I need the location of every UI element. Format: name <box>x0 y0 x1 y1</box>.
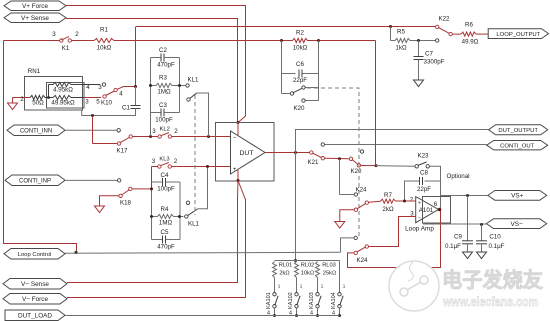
label C9 value <box>445 243 461 250</box>
svg-text:R3: R3 <box>159 75 167 82</box>
svg-text:3: 3 <box>152 128 156 135</box>
svg-text:R6: R6 <box>465 22 473 29</box>
node K17 tap <box>91 114 94 117</box>
svg-text:DUT_OUTPUT: DUT_OUTPUT <box>498 128 538 134</box>
wire DUT V- inside box <box>237 170 239 181</box>
label RN1 pin 4 <box>86 84 90 91</box>
svg-text:4.95kΩ: 4.95kΩ <box>53 87 73 94</box>
capacitor C7 <box>414 41 424 81</box>
node DUT V+ junction <box>237 121 240 124</box>
node R2 right <box>317 39 320 42</box>
ground C10 <box>477 252 487 259</box>
svg-text:+: + <box>418 201 421 207</box>
label R5 <box>397 29 405 36</box>
svg-text:K20: K20 <box>293 105 305 112</box>
wire VS+ row <box>441 195 488 197</box>
svg-text:5: 5 <box>96 99 100 106</box>
ground C9 <box>463 252 473 259</box>
svg-text:1: 1 <box>300 284 303 289</box>
svg-text:RL03: RL03 <box>322 263 336 269</box>
svg-text:K17: K17 <box>116 148 128 155</box>
svg-text:C9: C9 <box>454 234 462 241</box>
label C10 value <box>489 243 505 250</box>
flag V+ Sense <box>4 13 66 23</box>
relay switch KA104 <box>331 284 346 318</box>
label R1 <box>100 27 108 34</box>
node R4 left <box>150 215 153 218</box>
wire V+ Force net: right then down x=245.5 <box>66 6 246 123</box>
wire lower network left rail x=151.5 <box>151 167 153 240</box>
svg-text:4: 4 <box>119 91 123 98</box>
wire left rail from K1 row down to Loop Control <box>4 41 77 253</box>
svg-text:−: − <box>418 216 421 222</box>
switch K18 <box>119 187 152 197</box>
svg-text:10kΩ: 10kΩ <box>97 45 112 52</box>
svg-text:+: + <box>233 167 237 173</box>
svg-text:R4: R4 <box>161 206 169 213</box>
svg-text:C1: C1 <box>122 105 130 112</box>
label KL2 <box>160 127 170 133</box>
svg-text:3: 3 <box>52 31 56 38</box>
label DUT plus pin <box>233 167 237 173</box>
svg-text:V− Force: V− Force <box>22 296 49 303</box>
label RL02 value <box>301 271 314 277</box>
svg-text:K10: K10 <box>101 100 113 107</box>
label R3 value <box>157 89 171 96</box>
node C7 tap <box>417 39 420 42</box>
svg-text:R2: R2 <box>296 30 304 37</box>
svg-text:KL1: KL1 <box>187 77 199 84</box>
wire C1 upper stem <box>135 87 137 106</box>
label KL3 <box>159 157 169 163</box>
label KL2 pin 2 <box>174 128 178 135</box>
label A101 pin 2 <box>410 196 414 203</box>
capacitor C8 <box>405 177 441 200</box>
label C8 value <box>417 186 431 193</box>
capacitor C6 <box>299 70 302 78</box>
svg-text:R5: R5 <box>397 29 405 36</box>
label K18 <box>120 200 132 207</box>
wire R1 row continues to R2 node <box>246 40 282 42</box>
label RL03 value <box>323 271 336 277</box>
svg-text:3: 3 <box>85 99 89 106</box>
wire pin3 input <box>369 217 416 247</box>
label R6 <box>465 22 473 29</box>
svg-text:R7: R7 <box>384 192 392 199</box>
resistor R2 <box>293 38 308 42</box>
switch K17 <box>93 116 133 146</box>
svg-text:KA102: KA102 <box>288 292 294 309</box>
svg-text:C5: C5 <box>161 229 169 236</box>
resistor network RN1 outer box <box>25 77 83 111</box>
svg-text:0.1μF: 0.1μF <box>489 243 505 250</box>
svg-text:100pF: 100pF <box>155 117 173 124</box>
label KL2 pin 3 <box>152 128 156 135</box>
svg-text:KA103: KA103 <box>309 292 315 309</box>
dashed link KL1a-KL1b <box>194 95 196 215</box>
wire K24 upper to ground <box>340 210 354 222</box>
label KL1 lower <box>188 221 200 228</box>
svg-text:K20: K20 <box>350 168 362 175</box>
wire KA104 feed <box>339 261 341 293</box>
wire upper network left rail x=150 <box>150 58 152 137</box>
wire top loop-output net y=26.5 from x=136 to K22 <box>136 26 437 28</box>
svg-text:KA104: KA104 <box>331 292 337 309</box>
label C5 <box>161 229 169 236</box>
svg-text:2: 2 <box>174 158 178 165</box>
switch K20 mid <box>349 157 360 167</box>
svg-text:1: 1 <box>278 284 281 289</box>
wire lower network right rail x=180 <box>179 182 181 240</box>
wire VS- row <box>423 223 487 225</box>
wire K21 to K20 <box>325 157 350 160</box>
label C1 <box>122 105 130 112</box>
wire CONTI_INN to contact <box>65 129 117 131</box>
label C6 value <box>293 77 307 84</box>
svg-text:CONTI_INN: CONTI_INN <box>20 128 52 134</box>
wire R2 drop <box>375 41 377 166</box>
label K1 pin 3 <box>52 31 56 38</box>
label K20 top <box>293 105 305 112</box>
wire V+ Sense net: right then down x=237.5 <box>66 19 238 123</box>
wire DUT output load drop <box>295 153 297 261</box>
resistor RN1b 50ohm <box>13 95 54 99</box>
wire CONTI_OUT line <box>325 144 487 146</box>
relay switch KA101 <box>266 284 281 318</box>
open contact K18 fixed <box>118 179 121 182</box>
label KL1 upper <box>187 77 199 84</box>
capacitor C10 <box>476 225 487 253</box>
node RN1 mid <box>47 96 50 99</box>
node A101 output <box>438 208 442 212</box>
flag DUT_LOAD <box>5 310 65 321</box>
node R3 right <box>178 84 181 87</box>
svg-text:RL01: RL01 <box>279 263 293 269</box>
label A101 pin 3 <box>410 211 414 218</box>
label 50ohm <box>32 100 44 107</box>
node R2 left <box>280 39 283 42</box>
flag CONTI_INP <box>5 175 65 186</box>
op-amp A101 triangle <box>416 197 439 223</box>
svg-text:DUT_LOAD: DUT_LOAD <box>18 312 52 319</box>
switch K21 <box>310 151 325 160</box>
label RL02 <box>301 263 315 269</box>
resistor RN1c 49.95k <box>53 95 84 99</box>
ground RN1 left <box>8 98 18 110</box>
resistor R1 <box>94 38 246 42</box>
svg-text:Optional: Optional <box>447 173 470 180</box>
wire V- sense rail <box>67 181 238 283</box>
node C1 top junction <box>134 85 137 88</box>
ground K24 upper <box>335 222 345 229</box>
label C7 <box>425 51 433 58</box>
label DUT <box>240 150 254 157</box>
svg-text:KL2: KL2 <box>160 127 170 133</box>
label C9 <box>454 234 462 241</box>
node C8 tap on pin2 <box>403 200 406 203</box>
open contact K21 up <box>321 143 324 146</box>
open contact K22 lower <box>436 39 439 42</box>
node R4 right <box>178 215 181 218</box>
svg-text:KL3: KL3 <box>159 157 169 163</box>
label C10 <box>489 234 501 241</box>
resistor R5 <box>395 38 435 42</box>
svg-text:V+ Force: V+ Force <box>22 3 49 10</box>
switch KL2 <box>158 133 172 139</box>
label C2 value <box>157 62 175 69</box>
resistor R3 <box>151 83 186 87</box>
flag CONTI_INN <box>7 125 65 136</box>
switch KL1 upper <box>186 84 209 137</box>
label C8 <box>420 170 428 177</box>
resistor network RN1 inner box <box>47 83 85 109</box>
wire load bank top rail <box>275 260 340 262</box>
label KL3 pin 3 <box>152 158 156 165</box>
label KL3 pin 2 <box>174 158 178 165</box>
wire C6 right rail <box>302 41 319 74</box>
svg-text:K24: K24 <box>355 187 367 194</box>
svg-text:K22: K22 <box>438 16 450 23</box>
wire RN1 inner left rail <box>48 85 50 98</box>
capacitor C4 <box>152 178 181 186</box>
label K10 <box>101 100 113 107</box>
op-amp DUT triangle <box>231 131 266 174</box>
open contact K17 fixed <box>117 129 120 132</box>
wire x=135.5 red riser from top line <box>135 27 137 87</box>
flag V- Force <box>3 294 67 305</box>
dashed link K20-K24 <box>307 88 359 237</box>
label C2 <box>159 47 167 54</box>
wire feedback loop bottom <box>348 211 441 268</box>
label R1 value 10k <box>97 45 112 52</box>
node DUT output sense tap <box>294 151 297 154</box>
svg-text:VS+: VS+ <box>511 193 524 200</box>
label R6 value <box>462 39 479 46</box>
svg-text:22pF: 22pF <box>417 186 431 193</box>
capacitor C9 <box>462 196 473 253</box>
resistor RL02 <box>295 262 299 293</box>
flag Loop Control <box>4 249 65 260</box>
wire V- force rail <box>67 181 246 298</box>
svg-text:C3: C3 <box>159 102 167 109</box>
label R7 value <box>382 206 394 213</box>
watermark elecfans logo and text <box>389 261 543 311</box>
label K22 <box>438 16 450 23</box>
switch K20 top <box>282 74 319 103</box>
svg-text:www.elecfans.com: www.elecfans.com <box>442 294 538 309</box>
label RL03 <box>322 263 336 269</box>
label RL01 <box>279 263 293 269</box>
wire DUT output <box>265 152 310 154</box>
svg-text:KA101: KA101 <box>266 292 272 309</box>
label A101 pin 6 <box>434 201 438 208</box>
svg-text:K21: K21 <box>307 159 319 166</box>
switch K23 <box>376 162 441 177</box>
node Loop Control tap <box>74 251 77 254</box>
switch K1 <box>60 37 94 43</box>
node R3 left <box>149 84 152 87</box>
flag V+ Force <box>4 1 66 11</box>
relay switch KA102 <box>288 284 303 318</box>
svg-text:4: 4 <box>86 84 90 91</box>
switch K22 <box>436 25 453 36</box>
resistor RN1a 4.95k <box>49 82 85 86</box>
node K23 junction <box>375 164 378 167</box>
svg-text:2kΩ: 2kΩ <box>279 271 289 277</box>
svg-text:470pF: 470pF <box>157 244 175 251</box>
svg-text:Loop Amp: Loop Amp <box>405 226 434 233</box>
svg-text:CONTI_OUT: CONTI_OUT <box>500 143 534 149</box>
node plus input tap x=207.5 <box>206 165 209 168</box>
node KL2 left rail junction <box>149 135 152 138</box>
switch K10 <box>103 87 136 99</box>
flag VS- <box>487 219 547 229</box>
label C5 value <box>157 244 175 251</box>
svg-text:1: 1 <box>321 284 324 289</box>
label RN1 pin 2 <box>20 96 24 103</box>
wire R5 drop <box>391 27 396 41</box>
label RN1 pin 5 <box>96 99 100 106</box>
svg-text:2: 2 <box>20 96 24 103</box>
label K1 <box>62 45 70 52</box>
label C3 <box>159 102 167 109</box>
label R2 <box>296 30 304 37</box>
label 49.95k <box>51 100 75 107</box>
capacitor C5 <box>152 236 181 244</box>
wire upper network right rail x=179 <box>179 58 181 113</box>
svg-text:K23: K23 <box>417 153 429 160</box>
label R2 value <box>293 45 308 52</box>
label RN1 pin 3b <box>85 99 89 106</box>
ground K18 <box>95 206 105 213</box>
svg-text:CONTI_INP: CONTI_INP <box>19 178 51 184</box>
wire DUT_OUTPUT sense line <box>296 130 489 153</box>
svg-text:C10: C10 <box>489 234 501 241</box>
label Optional <box>447 173 470 180</box>
wire CONTI_INP to contact <box>65 179 117 181</box>
wire DUT plus input row y=166.5 <box>152 166 231 168</box>
svg-text:1MΩ: 1MΩ <box>157 89 171 96</box>
node minus input tap x=208.5 <box>207 135 210 138</box>
flag VS+ <box>488 191 547 201</box>
svg-text:1: 1 <box>343 284 346 289</box>
wire K1/R1 row y=40.5 <box>4 40 60 42</box>
switch KL1 lower <box>185 168 208 218</box>
svg-text:1MΩ: 1MΩ <box>159 220 173 227</box>
wire K24 upper fixed <box>340 159 358 196</box>
switch KL3 <box>158 163 172 169</box>
switch K24 lower <box>354 245 368 255</box>
label R5 value <box>395 45 407 52</box>
open contact K20 mid up <box>360 150 363 153</box>
node K20 feed tap <box>338 157 341 160</box>
svg-text:2: 2 <box>75 31 79 38</box>
wire K20 to K23 node <box>361 165 377 167</box>
label C6 <box>296 61 304 68</box>
label R3 <box>159 75 167 82</box>
flag V- Sense <box>3 279 67 290</box>
wire RN1 bottom row to K10 <box>84 97 101 99</box>
label DUT minus pin <box>233 135 237 141</box>
flag CONTI_OUT <box>487 141 548 150</box>
wire K24 lower fixed contact <box>341 236 358 252</box>
relay switch KA103 <box>309 284 324 318</box>
wire C1 bottom to RN1 link <box>82 109 136 116</box>
label C4 value <box>157 186 175 193</box>
wire DUT V+ into triangle <box>237 123 239 136</box>
svg-text:RN1: RN1 <box>28 68 41 75</box>
node DUT V- junction <box>237 179 240 182</box>
svg-text:22pF: 22pF <box>293 77 307 84</box>
resistor R7 <box>368 199 395 203</box>
wire C6 left rail <box>282 41 296 74</box>
node load rail tap <box>294 259 297 262</box>
label R4 value <box>159 220 173 227</box>
svg-text:电子发烧友: 电子发烧友 <box>442 268 543 292</box>
svg-text:DUT: DUT <box>240 150 254 157</box>
wire C8 right to output <box>440 181 442 208</box>
svg-text:C8: C8 <box>420 170 428 177</box>
svg-text:100pF: 100pF <box>157 186 175 193</box>
svg-text:3: 3 <box>98 84 102 91</box>
svg-text:V− Sense: V− Sense <box>21 281 49 288</box>
svg-text:50Ω: 50Ω <box>32 100 44 107</box>
svg-text:2: 2 <box>174 128 178 135</box>
svg-text:K1: K1 <box>62 45 70 52</box>
svg-text:2kΩ: 2kΩ <box>382 206 394 213</box>
svg-text:10kΩ: 10kΩ <box>301 271 314 277</box>
svg-text:3300pF: 3300pF <box>424 59 445 66</box>
label 4.95k <box>53 87 73 94</box>
label C4 <box>161 172 169 179</box>
label K24 lower <box>356 257 368 264</box>
label K1 pin 2 <box>75 31 79 38</box>
svg-text:1kΩ: 1kΩ <box>395 45 407 52</box>
svg-text:C2: C2 <box>159 47 167 54</box>
label K24 upper <box>355 187 367 194</box>
svg-text:10kΩ: 10kΩ <box>293 45 308 52</box>
label C7 value <box>424 59 445 66</box>
node C9 tap <box>466 194 469 197</box>
open contact above K10 <box>102 83 105 86</box>
svg-text:C6: C6 <box>296 61 304 68</box>
resistor RL01 <box>273 262 277 293</box>
svg-text:−: − <box>233 135 237 141</box>
resistor R6 <box>453 32 489 36</box>
svg-text:49.95kΩ: 49.95kΩ <box>51 100 75 107</box>
wire pin2 input <box>396 200 416 202</box>
wire K18 to ground <box>100 196 120 206</box>
node K18 tap on rail <box>150 187 153 190</box>
svg-text:470pF: 470pF <box>157 62 175 69</box>
switch K24 upper <box>354 201 368 211</box>
svg-text:RL02: RL02 <box>301 263 315 269</box>
svg-text:V+ Sense: V+ Sense <box>21 15 49 22</box>
capacitor C1 <box>131 106 141 109</box>
svg-text:C4: C4 <box>161 172 169 179</box>
wire DUT minus input row y=136.5 <box>132 136 230 138</box>
wire RN1 top row to open contact <box>84 84 100 86</box>
label K21 <box>307 159 319 166</box>
svg-text:K24: K24 <box>356 257 368 264</box>
resistor RL03 <box>316 262 320 293</box>
label R4 <box>161 206 169 213</box>
label A101 minus marker <box>418 216 421 222</box>
svg-text:49.9Ω: 49.9Ω <box>462 39 479 46</box>
svg-text:Loop Control: Loop Control <box>18 252 52 258</box>
label A101 plus marker <box>418 201 421 207</box>
label RN1 pin 3a <box>98 84 102 91</box>
